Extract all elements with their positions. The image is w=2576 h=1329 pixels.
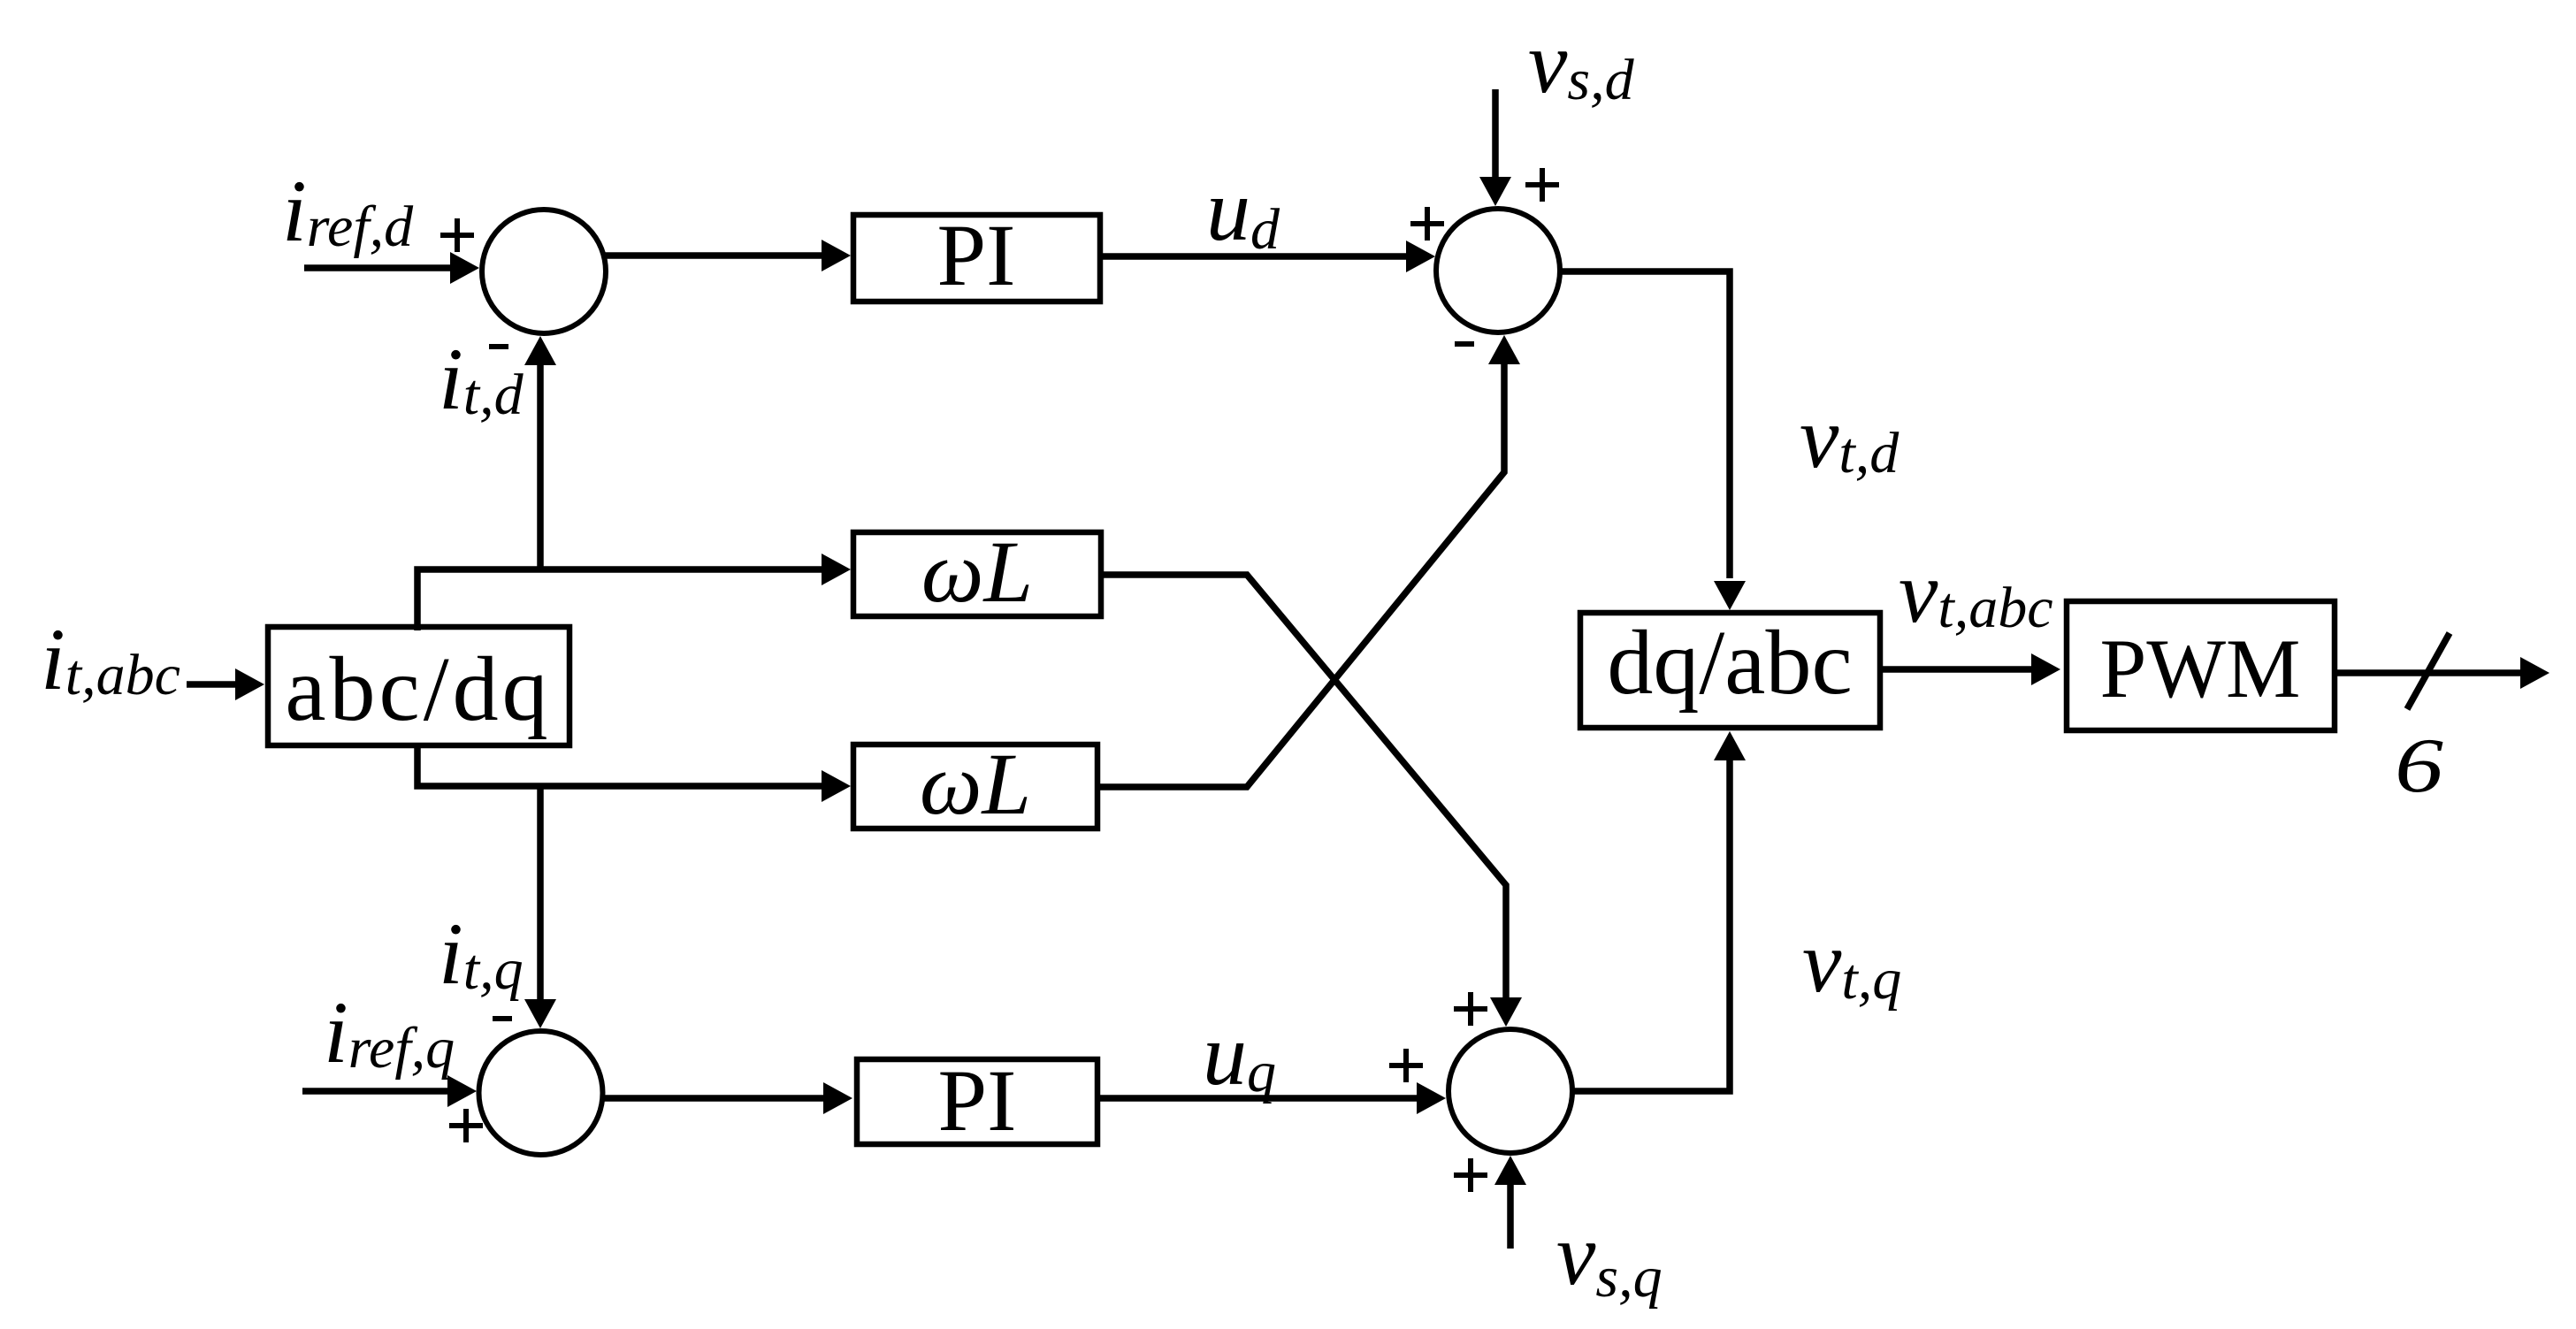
wire S2 output to dq/abc (v_t,d) (1558, 271, 1730, 578)
arrowhead i_t,d into S1 (524, 336, 556, 365)
summing junction S1 (482, 210, 606, 333)
plus at S2 left input (1410, 221, 1444, 226)
arrowhead i_ref,q into S3 (447, 1075, 477, 1107)
summing junction S3 (479, 1031, 603, 1155)
minus at S3 top input (493, 1016, 512, 1021)
svg-text:PI: PI (938, 1051, 1017, 1150)
wire S1 to PI (605, 252, 824, 259)
plus at S1 input (440, 233, 474, 238)
box dq/abc (1580, 613, 1880, 728)
svg-text:ωL: ωL (921, 523, 1033, 621)
svg-text:dq/abc: dq/abc (1607, 612, 1852, 714)
arrowhead v_t,q into dq/abc bottom (1714, 731, 1746, 760)
wire S4 output to dq/abc (v_t,q) (1572, 757, 1730, 1091)
wire riser i_t,d to S1 (537, 363, 544, 569)
wire wL1 cross down to S4 (1101, 575, 1506, 1002)
arrowhead i_t,q into S3 (524, 999, 556, 1028)
summing junction S4 (1449, 1029, 1572, 1153)
summing junction S2 (1436, 209, 1560, 332)
arrowhead S3 out into PI2 (823, 1082, 852, 1114)
plus at S3 input (449, 1123, 483, 1128)
arrowhead i_ref,d (450, 252, 479, 284)
arrowhead u_q into S4 (1417, 1082, 1446, 1114)
wire S3 to PI2 (603, 1095, 826, 1102)
plus at S4 left input (1389, 1063, 1423, 1068)
wire PI2 to S4 (u_q) (1097, 1095, 1419, 1102)
svg-text:PWM: PWM (2100, 622, 2301, 715)
svg-text:PI: PI (937, 206, 1016, 304)
arrowhead branch into wL1 (822, 554, 851, 585)
box PWM (2067, 601, 2335, 730)
box wL lower (853, 745, 1097, 829)
wire i_ref,d input (304, 264, 453, 271)
minus at S2 bottom input (1455, 341, 1474, 347)
wire i_ref,q input (302, 1088, 451, 1095)
svg-text:6: 6 (2395, 722, 2443, 808)
wire v_s,q rise (1507, 1183, 1514, 1249)
box PI d-axis (853, 215, 1100, 302)
wire dq/abc to PWM (1880, 666, 2034, 673)
arrowhead v_t,d into dq/abc (1714, 581, 1746, 610)
plus at S4 top input (1454, 1006, 1487, 1012)
arrowhead into PI (822, 240, 851, 271)
bus slash (2407, 633, 2450, 709)
minus at S1 bottom input (489, 344, 508, 349)
arrowhead PWM output (2520, 657, 2549, 689)
arrowhead cross into S4 top (1490, 997, 1522, 1027)
plus at S2 top input (1525, 182, 1559, 187)
arrowhead u_d into S2 (1406, 241, 1435, 272)
wire PI to S2 (u_d) (1100, 253, 1409, 260)
wire v_s,d drop (1492, 89, 1499, 179)
arrowhead v_s,d into S2 (1479, 177, 1511, 206)
box PI q-axis (857, 1059, 1097, 1144)
wire i_t,abc input (187, 681, 237, 688)
arrowhead branch into wL2 (822, 770, 851, 802)
wire branch abc/dq top to wL1 (417, 569, 824, 630)
arrowhead v_t,abc into PWM (2031, 653, 2060, 685)
svg-text:ωL: ωL (920, 735, 1031, 833)
plus at S4 bottom input (1454, 1172, 1487, 1178)
arrowhead cross into S2 bottom (1488, 335, 1520, 364)
wire branch abc/dq bottom to wL2 (417, 743, 824, 786)
wire PWM output (2335, 669, 2521, 676)
wire drop i_t,q to S3 (537, 786, 544, 1002)
arrowhead v_s,q into S4 (1494, 1156, 1526, 1185)
wire wL2 cross up to S2 (1097, 363, 1504, 787)
box abc/dq (268, 627, 569, 745)
arrowhead i_t,abc into abc/dq (235, 668, 264, 700)
svg-text:abc/dq: abc/dq (285, 638, 551, 740)
box wL upper (853, 532, 1101, 616)
